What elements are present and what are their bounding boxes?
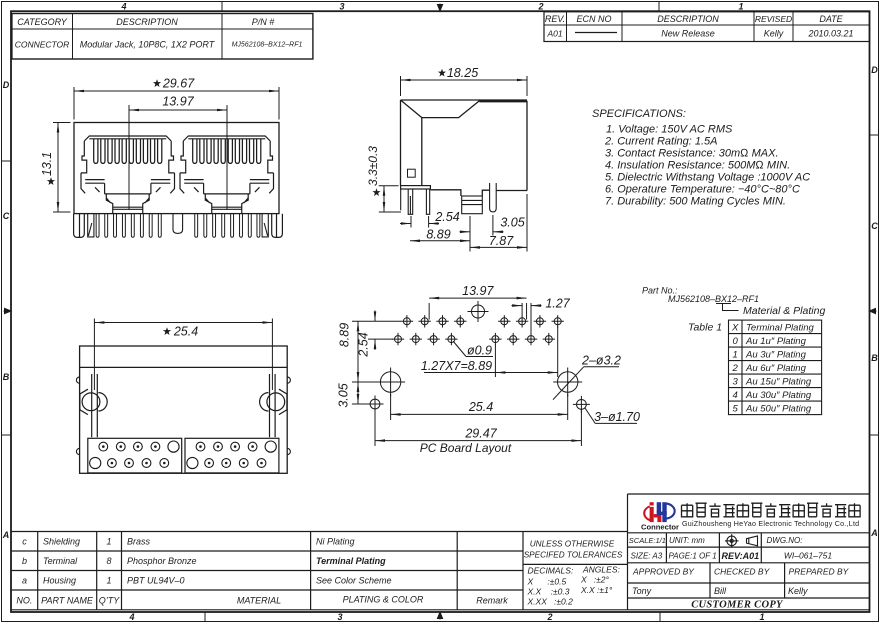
zone labels bottom bbox=[128, 612, 764, 622]
svg-text:See Color Scheme: See Color Scheme bbox=[316, 576, 392, 586]
front view port 2 contact teeth bbox=[193, 139, 261, 164]
svg-text:4: 4 bbox=[733, 390, 738, 401]
pcb layout mount hole left 3.2 bbox=[376, 368, 405, 397]
svg-text:29.67: 29.67 bbox=[162, 77, 195, 91]
svg-text:3: 3 bbox=[339, 2, 344, 12]
zone tick bottom 4/3 bbox=[204, 612, 206, 622]
svg-text:SCALE:1/1: SCALE:1/1 bbox=[629, 536, 666, 545]
svg-text:REV:A01: REV:A01 bbox=[722, 551, 760, 561]
svg-text:X.X :±1°: X.X :±1° bbox=[580, 585, 613, 595]
svg-text:Au 15u″ Plating: Au 15u″ Plating bbox=[745, 376, 812, 387]
svg-text:REV.: REV. bbox=[545, 14, 565, 24]
revision ECN dash bbox=[575, 32, 617, 34]
company block texts bbox=[629, 536, 850, 611]
svg-text:3.05: 3.05 bbox=[500, 216, 524, 230]
dimension 29.67 front width bbox=[74, 87, 279, 120]
side view U shield pin bbox=[490, 183, 497, 212]
company name chinese bbox=[682, 503, 861, 517]
part no label bbox=[642, 286, 759, 305]
svg-text:8.89: 8.89 bbox=[426, 228, 450, 242]
dimension 13.1 front height bbox=[53, 123, 71, 213]
svg-text:A: A bbox=[870, 528, 878, 538]
svg-text:1. Voltage: 150V AC RMS: 1. Voltage: 150V AC RMS bbox=[606, 124, 733, 136]
svg-text:DECIMALS:: DECIMALS: bbox=[528, 566, 574, 576]
svg-text:X :±2°: X :±2° bbox=[580, 575, 610, 585]
front view port 1 bbox=[81, 136, 175, 214]
svg-text:5. Dielectric Withstang Vol: 5. Dielectric Withstang Voltage :1000V A… bbox=[605, 172, 810, 184]
svg-text:MJ562108–BX12–RF1: MJ562108–BX12–RF1 bbox=[232, 42, 303, 49]
zone tick bottom 2/1 bbox=[659, 612, 661, 622]
dimension 13.97 port centers bbox=[129, 105, 227, 210]
svg-text:13.97: 13.97 bbox=[162, 95, 194, 109]
company logo bbox=[641, 502, 679, 531]
pcb dimension 1.27 bbox=[512, 303, 542, 334]
svg-text:UNIT: mm: UNIT: mm bbox=[669, 536, 705, 545]
specifications text bbox=[592, 108, 810, 208]
bottom view pin block left pins bbox=[90, 441, 179, 469]
svg-text:MJ562108–BX12–RF1: MJ562108–BX12–RF1 bbox=[668, 294, 759, 304]
svg-text:c: c bbox=[22, 537, 27, 547]
svg-text:Shielding: Shielding bbox=[43, 537, 80, 547]
side view leg thin left bbox=[400, 189, 402, 210]
front view bent pin right bbox=[262, 214, 268, 237]
center arrow left bbox=[4, 308, 12, 313]
svg-text:X: X bbox=[731, 322, 739, 333]
center arrow right bbox=[870, 308, 877, 313]
svg-text:Au 3u″ Plating: Au 3u″ Plating bbox=[745, 349, 807, 360]
pcb dimension 29.47 bbox=[375, 410, 581, 446]
svg-text:SIZE: A3: SIZE: A3 bbox=[631, 552, 663, 561]
front view center post pin bbox=[173, 214, 183, 234]
svg-text:SPECIFICATIONS:: SPECIFICATIONS: bbox=[592, 108, 686, 120]
svg-text:2.54: 2.54 bbox=[434, 210, 459, 224]
front view shield leg left bbox=[74, 214, 85, 238]
svg-text:7.87: 7.87 bbox=[489, 234, 514, 248]
svg-text:ECN NO: ECN NO bbox=[576, 14, 611, 24]
bottom view side bumps bbox=[76, 377, 290, 455]
pcb dimension 13.97 bbox=[429, 298, 526, 319]
svg-text:3: 3 bbox=[337, 612, 342, 622]
front view contact pins comb right bbox=[195, 214, 260, 237]
zone labels left bbox=[2, 80, 10, 540]
svg-text:1.27X7=8.89: 1.27X7=8.89 bbox=[421, 359, 492, 373]
svg-text:1: 1 bbox=[738, 2, 743, 12]
dimension 7.87 bbox=[470, 194, 527, 252]
svg-text:WI–061–751: WI–061–751 bbox=[784, 551, 832, 561]
front view port 2 bbox=[180, 136, 274, 214]
svg-text:Remark: Remark bbox=[476, 596, 508, 606]
svg-text:NO.: NO. bbox=[16, 596, 32, 606]
svg-text:PART NAME: PART NAME bbox=[41, 596, 94, 606]
zone tick right B/A bbox=[870, 434, 879, 436]
svg-text:5: 5 bbox=[733, 403, 739, 414]
svg-text:Au 30u″ Plating: Au 30u″ Plating bbox=[745, 390, 812, 401]
svg-text:1: 1 bbox=[106, 537, 111, 547]
dimension 3.3 pin length bbox=[379, 186, 401, 212]
svg-text:3–ø1.70: 3–ø1.70 bbox=[594, 410, 640, 424]
svg-text:6. Operature Temperature: −: 6. Operature Temperature: −40°C~80°C bbox=[605, 184, 800, 196]
svg-text:4. Insulation Resistance: 5: 4. Insulation Resistance: 500MΩ MIN. bbox=[605, 160, 790, 172]
svg-text:Material & Plating: Material & Plating bbox=[743, 305, 825, 317]
svg-text:PC Board Layout: PC Board Layout bbox=[420, 441, 512, 455]
pcb layout center hole bbox=[468, 301, 489, 322]
svg-text:2.54: 2.54 bbox=[357, 332, 371, 357]
svg-text:2: 2 bbox=[546, 612, 552, 622]
svg-text:3. Contact Resistance: 30mΩ: 3. Contact Resistance: 30mΩ MAX. bbox=[605, 148, 779, 160]
front view shield body bbox=[74, 123, 279, 214]
side view latch square bbox=[408, 169, 416, 177]
svg-text:D: D bbox=[871, 65, 878, 75]
svg-text:CHECKED BY: CHECKED BY bbox=[714, 567, 771, 577]
svg-text:Housing: Housing bbox=[43, 576, 76, 586]
center arrow bottom bbox=[437, 612, 442, 620]
svg-text:29.47: 29.47 bbox=[464, 427, 497, 441]
pcb dimension 1.27X7=8.89 bbox=[424, 327, 558, 378]
svg-text:Kelly: Kelly bbox=[788, 586, 808, 596]
svg-text:25.4: 25.4 bbox=[173, 325, 198, 339]
front view shield leg right bbox=[272, 214, 283, 238]
pcb layout pin holes row 2 bbox=[392, 333, 555, 345]
svg-text:Modular Jack, 10P8C, 1X2 P: Modular Jack, 10P8C, 1X2 PORT bbox=[80, 40, 216, 50]
zone tick top 4/3 bbox=[221, 2, 223, 12]
svg-text:Ni Plating: Ni Plating bbox=[316, 537, 355, 547]
svg-text:8.89: 8.89 bbox=[338, 323, 352, 347]
svg-text:New Release: New Release bbox=[661, 29, 715, 39]
bottom view post left bbox=[80, 374, 107, 437]
tolerance block bbox=[523, 494, 628, 610]
svg-text:DATE: DATE bbox=[819, 14, 843, 24]
bottom view pin block right bbox=[185, 438, 279, 473]
pcb label 2-dia3.2 bbox=[553, 367, 619, 400]
pcb layout small hole left 1.7 bbox=[367, 396, 384, 413]
dimension 25.4 bottom view bbox=[94, 319, 272, 391]
company name english bbox=[682, 520, 859, 528]
svg-text:X.XX :±0.2: X.XX :±0.2 bbox=[527, 597, 574, 607]
zone tick right D/C bbox=[870, 134, 879, 136]
svg-text:DESCRIPTION: DESCRIPTION bbox=[116, 17, 178, 27]
projection symbol target bbox=[725, 534, 739, 548]
svg-text:1: 1 bbox=[733, 349, 738, 360]
svg-text:4: 4 bbox=[120, 2, 126, 12]
svg-text:D: D bbox=[3, 80, 10, 90]
pcb dimension 8.89 vertical bbox=[352, 321, 401, 382]
side view body outline bbox=[401, 100, 528, 196]
svg-text:13.1: 13.1 bbox=[40, 152, 54, 176]
svg-text:Au 50u″ Plating: Au 50u″ Plating bbox=[745, 403, 812, 414]
pcb layout mount hole right 3.2 bbox=[553, 368, 582, 397]
svg-text:Phosphor Bronze: Phosphor Bronze bbox=[127, 556, 197, 566]
materials table texts bbox=[16, 537, 508, 606]
svg-text:REVISED: REVISED bbox=[755, 14, 792, 24]
svg-text:Q’TY: Q’TY bbox=[99, 596, 120, 606]
svg-text:Table 1: Table 1 bbox=[688, 322, 722, 334]
bottom view pin block right pins bbox=[187, 441, 277, 469]
pcb layout pin holes row 1 bbox=[401, 315, 564, 327]
svg-text:PREPARED BY: PREPARED BY bbox=[789, 567, 850, 577]
pcb label 3-dia1.70 bbox=[585, 408, 637, 423]
svg-text:Au 6u″ Plating: Au 6u″ Plating bbox=[745, 363, 807, 374]
svg-text:Terminal Plating: Terminal Plating bbox=[746, 322, 814, 333]
svg-text:C: C bbox=[871, 221, 878, 231]
tolerance block texts bbox=[524, 540, 623, 607]
svg-text:a: a bbox=[22, 576, 27, 586]
side view leg B bbox=[426, 189, 429, 214]
svg-text:Terminal: Terminal bbox=[43, 556, 78, 566]
svg-text:X.X :±0.3: X.X :±0.3 bbox=[527, 587, 570, 597]
side view solder pin box bbox=[462, 196, 483, 214]
zone labels right bbox=[870, 65, 878, 538]
side view base shelf bbox=[401, 186, 431, 189]
svg-text:CONNECTOR: CONNECTOR bbox=[15, 40, 70, 50]
pcb layout small hole right 1.7 bbox=[573, 396, 590, 413]
bottom view body bbox=[80, 346, 288, 473]
svg-text:PLATING & COLOR: PLATING & COLOR bbox=[343, 595, 424, 605]
svg-text:Connector: Connector bbox=[641, 523, 679, 532]
revision block texts bbox=[545, 14, 854, 39]
zone tick left D/C bbox=[2, 160, 12, 162]
svg-text:3.05: 3.05 bbox=[337, 383, 351, 407]
material and plating label bbox=[743, 305, 825, 317]
part no callout bracket bbox=[716, 304, 739, 311]
revision block top-right bbox=[544, 12, 870, 42]
svg-text:1: 1 bbox=[759, 612, 764, 622]
svg-text:SPECIFED TOLERANCES: SPECIFED TOLERANCES bbox=[524, 551, 623, 560]
svg-text:Terminal Plating: Terminal Plating bbox=[316, 556, 386, 566]
svg-text:DESCRIPTION: DESCRIPTION bbox=[657, 14, 719, 24]
pcb layout caption bbox=[420, 441, 512, 455]
svg-text:1.27: 1.27 bbox=[545, 297, 570, 311]
svg-text:A: A bbox=[2, 530, 10, 540]
svg-text:2010.03.21: 2010.03.21 bbox=[807, 29, 853, 39]
svg-text:18.25: 18.25 bbox=[447, 66, 478, 80]
front view contact pins comb left bbox=[96, 214, 161, 237]
svg-text:Brass: Brass bbox=[127, 537, 151, 547]
svg-text:Kelly: Kelly bbox=[764, 29, 784, 39]
dimension 3.05 pin to shield bbox=[460, 215, 504, 236]
svg-text:1: 1 bbox=[106, 576, 111, 586]
dimension 8.89 leg to pin bbox=[410, 216, 470, 252]
title block top-left texts bbox=[15, 17, 303, 50]
company block grid bbox=[628, 494, 870, 598]
svg-text:ANGLES:: ANGLES: bbox=[582, 565, 620, 575]
svg-text:b: b bbox=[22, 556, 27, 566]
svg-text:PBT UL94V–0: PBT UL94V–0 bbox=[127, 576, 185, 586]
svg-text:ø0.9: ø0.9 bbox=[467, 344, 492, 358]
svg-text:2–ø3.2: 2–ø3.2 bbox=[581, 354, 621, 368]
svg-text:8: 8 bbox=[106, 556, 111, 566]
svg-text:2. Current Rating: 1.5A: 2. Current Rating: 1.5A bbox=[604, 136, 718, 148]
svg-text:B: B bbox=[871, 353, 878, 363]
front view bent pin left bbox=[88, 214, 94, 237]
svg-text:A01: A01 bbox=[546, 29, 562, 39]
zone tick left B/A bbox=[2, 434, 12, 436]
front view port 1 contact teeth bbox=[94, 139, 162, 164]
svg-text:Bill: Bill bbox=[714, 586, 727, 596]
svg-text:3.3±0.3: 3.3±0.3 bbox=[366, 146, 380, 186]
svg-text:DWG.NO:: DWG.NO: bbox=[767, 536, 803, 545]
table 1 label bbox=[688, 322, 722, 334]
pcb dimension 3.05 vertical bbox=[352, 382, 370, 404]
svg-text:MATERIAL: MATERIAL bbox=[237, 596, 281, 606]
dimension 18.25 side width bbox=[401, 76, 528, 96]
pcb label dia 0.9 bbox=[453, 341, 493, 357]
svg-text:CATEGORY: CATEGORY bbox=[17, 17, 68, 27]
svg-text:GuiZhousheng HeYao Electronic: GuiZhousheng HeYao Electronic Technology… bbox=[682, 520, 859, 528]
plating table bbox=[729, 320, 822, 415]
plating table texts bbox=[731, 322, 814, 414]
svg-text:3: 3 bbox=[733, 376, 739, 387]
svg-text:25.4: 25.4 bbox=[468, 400, 493, 414]
materials table grid bbox=[11, 532, 870, 610]
svg-text:P/N #: P/N # bbox=[252, 17, 276, 27]
center arrow top bbox=[437, 4, 442, 12]
svg-text:PAGE:1 OF 1: PAGE:1 OF 1 bbox=[669, 552, 717, 561]
pcb dimension 25.4 bbox=[391, 394, 568, 420]
svg-text:2: 2 bbox=[537, 2, 543, 12]
svg-text:CUSTOMER COPY: CUSTOMER COPY bbox=[691, 600, 784, 611]
bottom view post right bbox=[260, 374, 287, 437]
pcb dimension 2.54 vertical bbox=[368, 311, 393, 350]
zone labels top bbox=[120, 2, 743, 12]
svg-text:7. Durability: 500 Mating: 7. Durability: 500 Mating Cycles MIN. bbox=[605, 196, 786, 208]
svg-text:Tony: Tony bbox=[632, 586, 652, 596]
svg-text:X :±0.5: X :±0.5 bbox=[527, 577, 567, 587]
svg-text:UNLESS OTHERWISE: UNLESS OTHERWISE bbox=[530, 540, 615, 549]
svg-text:B: B bbox=[3, 372, 10, 382]
svg-text:C: C bbox=[3, 211, 10, 221]
svg-text:13.97: 13.97 bbox=[462, 284, 494, 298]
projection symbol cone bbox=[747, 536, 758, 546]
zone tick top 2/1 bbox=[658, 2, 660, 12]
bottom view pin block left bbox=[88, 438, 182, 473]
svg-text:APPROVED BY: APPROVED BY bbox=[632, 567, 695, 577]
svg-text:Au 1u″ Plating: Au 1u″ Plating bbox=[745, 336, 807, 347]
title block top-left bbox=[12, 14, 313, 60]
side view leg A bbox=[408, 189, 413, 214]
svg-text:2: 2 bbox=[732, 363, 739, 374]
svg-text:0: 0 bbox=[733, 336, 739, 347]
svg-text:4: 4 bbox=[128, 612, 134, 622]
dimension 2.54 leg pitch bbox=[400, 216, 439, 228]
